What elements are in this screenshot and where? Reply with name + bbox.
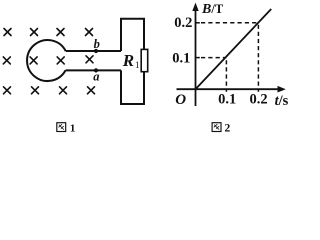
- svg-text:t/s: t/s: [275, 93, 289, 109]
- svg-text:0.2: 0.2: [174, 15, 192, 31]
- caption "图" glyph of 图2: [212, 123, 221, 132]
- wire top lead (coil to circuit, through node b): [66, 50, 121, 52]
- svg-text:B/T: B/T: [201, 2, 224, 17]
- caption "图" glyph of 图1: [57, 123, 66, 132]
- svg-text:2: 2: [225, 123, 231, 135]
- B(t) graph line (linear ramp): [196, 9, 271, 89]
- svg-text:0.1: 0.1: [172, 51, 190, 67]
- svg-text:O: O: [175, 92, 186, 108]
- node b: [94, 49, 98, 53]
- resistor R1: [141, 49, 148, 71]
- wire bottom lead (coil to circuit, through node a): [66, 69, 122, 71]
- node a: [94, 68, 98, 72]
- wire lower circuit loop (right edge below R1, bottom edge, left edge up): [121, 70, 144, 104]
- tick 0.2 on y axis: [196, 22, 200, 24]
- dashed line 0.1 vertical: [225, 58, 227, 86]
- dashed line 0.2 horizontal: [201, 22, 258, 24]
- tick 0.1 below x axis: [225, 89, 227, 92]
- tick 0.2 below x axis: [257, 89, 259, 92]
- svg-text:1: 1: [70, 123, 76, 135]
- svg-text:R: R: [122, 51, 134, 70]
- dashed line 0.1 horizontal: [201, 57, 226, 59]
- tick 0.1 on y axis: [196, 57, 200, 59]
- x axis (t) with arrowhead: [177, 88, 280, 90]
- svg-text:0.1: 0.1: [218, 92, 236, 108]
- y axis (B) with arrowhead: [195, 8, 197, 106]
- wire upper circuit loop (left edge up, top edge, right edge down to R1): [121, 19, 144, 51]
- svg-text:1: 1: [135, 60, 140, 70]
- magnetic field cross row 2: [3, 56, 93, 64]
- magnetic field cross row 1: [4, 29, 93, 36]
- svg-text:0.2: 0.2: [249, 92, 267, 108]
- svg-text:a: a: [93, 69, 99, 83]
- coil (circular loop in field region): [27, 40, 66, 81]
- dashed line 0.2 vertical: [257, 24, 259, 85]
- svg-text:b: b: [94, 37, 100, 51]
- magnetic field cross row 3: [4, 87, 95, 94]
